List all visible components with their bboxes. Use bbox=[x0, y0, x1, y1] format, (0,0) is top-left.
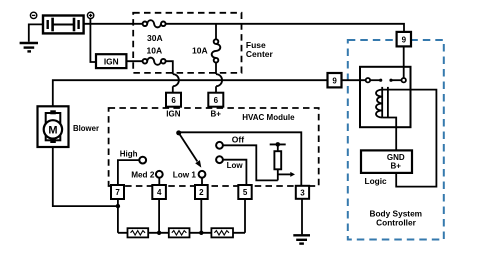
ground (battery) bbox=[20, 43, 38, 51]
wire IGN to 10A fuse bbox=[126, 60, 142, 62]
node bus pin4 bbox=[157, 231, 161, 235]
wire top to 10A vertical fuse bbox=[215, 24, 217, 40]
svg-text:4: 4 bbox=[157, 188, 162, 197]
connector 6 IGN bbox=[166, 93, 181, 107]
ground (pin 3) bbox=[293, 235, 310, 243]
svg-text:Med 2: Med 2 bbox=[131, 170, 155, 179]
connector 6 B+ bbox=[208, 93, 223, 107]
svg-text:9: 9 bbox=[402, 36, 407, 45]
wire blower bottom to pin 7 bbox=[53, 147, 118, 206]
low contact bbox=[216, 156, 223, 163]
svg-text:B+: B+ bbox=[210, 109, 221, 118]
switch arm with arrow bbox=[179, 133, 198, 162]
svg-text:M: M bbox=[48, 124, 57, 136]
svg-text:Controller: Controller bbox=[376, 218, 416, 228]
pin 7 bbox=[111, 185, 124, 199]
wire pin5 to bus bbox=[244, 199, 246, 233]
svg-text:High: High bbox=[120, 150, 138, 159]
svg-text:10A: 10A bbox=[192, 46, 208, 56]
node bus pin2 bbox=[199, 231, 203, 235]
off contact bbox=[216, 142, 223, 149]
wire vertical fuse to connector 6 B+ with hop bbox=[215, 63, 217, 75]
svg-text:IGN: IGN bbox=[166, 109, 180, 118]
wire relay coil to logic loop bbox=[382, 90, 436, 187]
svg-text:7: 7 bbox=[115, 188, 120, 197]
wire pin3 to ground bbox=[301, 199, 303, 234]
high contact bbox=[139, 157, 146, 164]
wire B+ top run bbox=[84, 23, 143, 25]
fuse 30A bbox=[143, 20, 166, 27]
pin 2 bbox=[195, 185, 208, 199]
node pin7 junction bbox=[116, 204, 120, 208]
connector 9 top bbox=[397, 32, 411, 47]
svg-text:HVAC Module: HVAC Module bbox=[242, 113, 295, 122]
resistor R2 bbox=[169, 228, 190, 237]
wire junction to pin 3 bbox=[179, 132, 302, 186]
fuse center dashed box bbox=[133, 13, 241, 73]
wire pin4 to bus bbox=[158, 199, 160, 233]
wire battery negative to ground bbox=[29, 24, 43, 41]
wiper arrow bbox=[278, 173, 291, 175]
resistor bus segments bbox=[118, 232, 245, 234]
pin 4 bbox=[152, 185, 166, 199]
IGN box bbox=[96, 54, 126, 68]
wire 10A fuse to connector 6 IGN with hop bbox=[166, 61, 173, 74]
med 2 contact bbox=[156, 171, 163, 178]
connector 9 left bbox=[328, 73, 342, 87]
relay coil bbox=[376, 87, 388, 118]
svg-text:2: 2 bbox=[199, 188, 204, 197]
GND B+ logic box bbox=[361, 150, 412, 173]
svg-text:30A: 30A bbox=[147, 33, 163, 43]
node main junction in HVAC module bbox=[176, 130, 181, 135]
battery minus terminal bbox=[30, 12, 36, 18]
relay box U1 bbox=[360, 67, 411, 127]
battery B1 bbox=[43, 16, 84, 34]
svg-text:IGN: IGN bbox=[104, 56, 119, 66]
battery plus terminal bbox=[87, 12, 93, 18]
wire connector 9 top to relay contact bbox=[403, 46, 405, 78]
pin 5 bbox=[238, 185, 251, 199]
svg-text:GND: GND bbox=[387, 153, 405, 162]
svg-text:Logic: Logic bbox=[365, 176, 388, 186]
svg-text:Center: Center bbox=[246, 49, 274, 59]
svg-text:6: 6 bbox=[171, 96, 176, 105]
wire relay coil bottom to GND box bbox=[382, 118, 396, 151]
wire pin7 to resistor bus bbox=[117, 199, 119, 233]
pin 3 bbox=[296, 186, 309, 199]
resistor R4 vertical with tap bbox=[270, 143, 286, 145]
wire battery plus branch to IGN bbox=[90, 19, 96, 62]
svg-text:6: 6 bbox=[214, 96, 219, 105]
resistor R3 bbox=[211, 228, 233, 237]
resistor R1 bbox=[128, 228, 149, 237]
body system controller dashed box bbox=[348, 40, 444, 240]
svg-text:10A: 10A bbox=[147, 45, 163, 55]
wire connector 9 to relay bbox=[342, 79, 366, 81]
fuse 10A (vertical) bbox=[212, 39, 221, 62]
svg-text:Blower: Blower bbox=[73, 124, 99, 133]
svg-text:5: 5 bbox=[243, 188, 248, 197]
svg-text:9: 9 bbox=[332, 76, 337, 85]
fuse 10A (IGN) bbox=[143, 58, 166, 65]
wire blower to relay connector 9 bbox=[53, 80, 328, 106]
blower motor M1 bbox=[38, 106, 69, 147]
wire pin2 to bus bbox=[200, 199, 202, 233]
svg-text:Low: Low bbox=[227, 161, 244, 170]
low 1 contact bbox=[199, 171, 206, 178]
HVAC module dashed box bbox=[109, 108, 319, 186]
relay switch contacts bbox=[366, 78, 370, 82]
svg-text:3: 3 bbox=[300, 189, 305, 198]
svg-text:Off: Off bbox=[232, 134, 244, 144]
svg-text:Low 1: Low 1 bbox=[173, 170, 197, 179]
svg-text:B+: B+ bbox=[390, 162, 401, 171]
